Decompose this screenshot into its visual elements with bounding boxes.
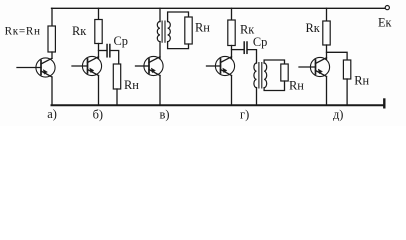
wire v: rail to transformer primary (159, 8, 161, 21)
wire a: emitter to bottom rail (51, 77, 53, 105)
transformer T (section г) primary winding (254, 63, 257, 88)
resistor Rк=Rн (section а) (48, 26, 55, 52)
wire b: emitter to bottom rail (98, 76, 100, 105)
wire g: collector node to capacitor (232, 49, 244, 51)
transistor VT g (207, 56, 235, 75)
wire d: emitter to bottom rail (326, 77, 328, 105)
wire g: emitter to bottom rail (231, 76, 233, 105)
resistor Rк (section д) (323, 21, 330, 45)
transistor VT v (136, 56, 164, 75)
wire top supply rail (52, 7, 386, 9)
wire d: collector node to Rн branch (327, 52, 348, 60)
svg-text:Ср: Ср (253, 35, 267, 49)
svg-text:Rн: Rн (289, 79, 304, 93)
resistor Rк (section г) (228, 20, 235, 46)
svg-text:Rк=Rн: Rк=Rн (5, 25, 41, 37)
resistor Rн (section г) (281, 64, 288, 81)
svg-text:д): д) (333, 108, 343, 122)
wire d: rail to resistor (326, 8, 328, 21)
svg-text:г): г) (240, 108, 249, 122)
resistor Rн (section д) (343, 60, 350, 79)
wire v: emitter to bottom rail (159, 76, 161, 105)
terminal Ек circle (385, 6, 389, 10)
svg-text:Rн: Rн (195, 21, 210, 35)
svg-text:Ср: Ср (114, 34, 128, 48)
wire b: capacitor to Rн branch (111, 51, 119, 65)
wire b: resistor to collector node (98, 44, 100, 59)
transformer T (section в) core (162, 21, 165, 42)
resistor Rн (section в) (185, 17, 192, 44)
wire v: Rн bottom loop to secondary bottom (168, 42, 189, 49)
wire g: resistor to collector node (231, 46, 233, 59)
wire a: rail to resistor (51, 8, 53, 26)
terminator bar right end of bottom rail (383, 100, 385, 108)
wire v: secondary top to Rн loop (168, 12, 189, 22)
capacitor Ср (section б) (106, 45, 108, 57)
svg-text:в): в) (160, 108, 170, 122)
resistor Rн (section б) (113, 64, 120, 89)
wire b: collector node to capacitor (99, 50, 107, 52)
svg-text:Ек: Ек (378, 15, 392, 29)
wire b: Rн to bottom rail (116, 89, 118, 105)
wire a: resistor to collector (51, 52, 53, 58)
svg-text:Rк: Rк (72, 24, 87, 38)
wire b: rail to resistor (98, 8, 100, 19)
wire g: secondary top to Rн loop (264, 60, 284, 64)
wire v: primary bottom to collector (159, 42, 161, 59)
svg-text:Rн: Rн (124, 78, 139, 92)
resistor Rк (section б) (95, 20, 102, 44)
wire d: Rн to bottom rail (346, 79, 348, 105)
svg-text:б): б) (93, 108, 103, 122)
wire d: resistor to collector node (326, 45, 328, 59)
transformer T (section г) core (259, 63, 262, 89)
wire g: rail to resistor (231, 8, 233, 20)
wire g: primary bottom to bottom rail (256, 88, 258, 105)
wire bottom common rail (52, 104, 385, 106)
transistor VT d (299, 57, 330, 76)
transformer T (section в) primary winding (157, 22, 160, 42)
transistor VT b (72, 56, 102, 75)
transformer T (section в) secondary winding (168, 22, 171, 42)
transformer T (section г) secondary winding (264, 63, 267, 88)
svg-text:а): а) (47, 107, 57, 121)
svg-text:Rн: Rн (354, 73, 369, 87)
svg-text:Rк: Rк (306, 21, 321, 35)
wire g: capacitor to transformer primary (248, 50, 257, 63)
wire g: Rн bottom loop to secondary bottom (264, 81, 284, 91)
transistor VT a (17, 58, 55, 77)
capacitor Ср (section г) (243, 42, 245, 53)
